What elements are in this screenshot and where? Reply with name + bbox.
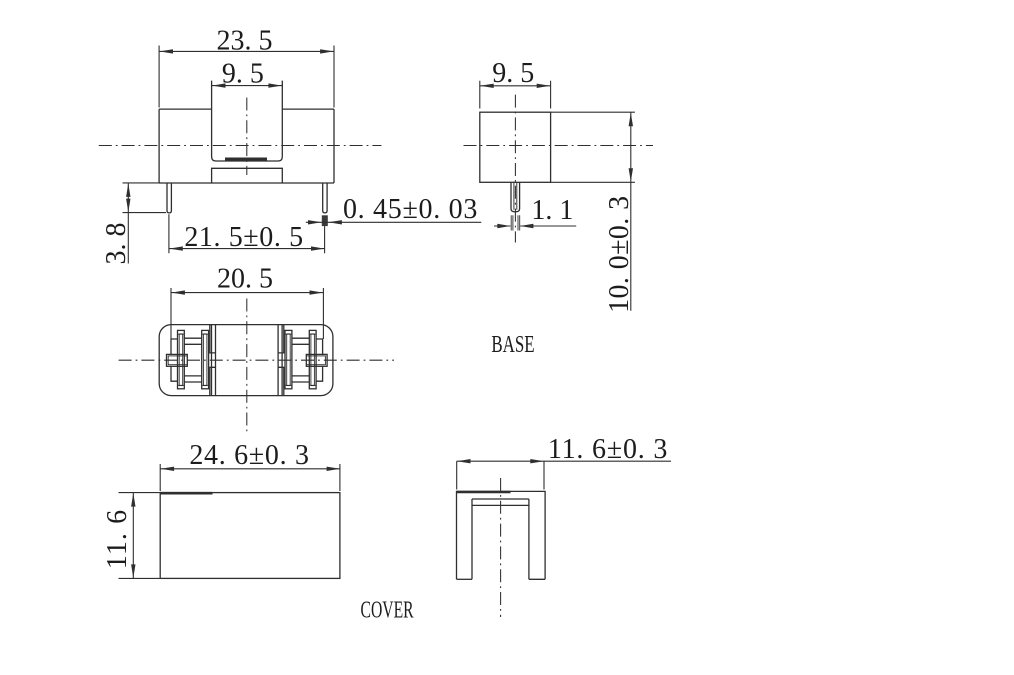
base side: pin outer profile [511,182,520,212]
left clip: finger bar A inner [179,334,183,386]
dimension 10.0±0.3: dimension line [630,112,632,311]
base front: body outline [159,109,334,183]
centerline horizontal (base top view) [119,359,394,361]
dimension 3.8: up arrow [126,183,130,197]
base top: left fuse-clip assembly [167,325,216,396]
dimension 24.6±0.3: extension lines [160,464,340,491]
dimension 0.45±0.03: leader line [306,221,482,223]
left clip: terminal tab outer [167,354,188,366]
svg-text:9. 5: 9. 5 [222,58,264,89]
dimension 0.45±0.03: left arrow [308,220,322,224]
svg-text:BASE: BASE [491,330,534,358]
svg-text:11. 6±0. 3: 11. 6±0. 3 [548,434,668,465]
svg-text:9. 5: 9. 5 [492,58,534,89]
dimension 9.5 (front): dimension line [212,85,283,87]
left clip: lower spring band [184,376,201,382]
dimension 11.6: dimension line [132,493,134,579]
cover side: channel outer profile [457,491,546,579]
cover side: inner top shelf double line [472,499,529,505]
dimension 21.5±0.5: dimension line [169,248,325,250]
base side: pin edge extension lines below tip [511,215,520,230]
dimension 1.1: left arrow [497,224,511,228]
dimension 21.5±0.5: right arrow [311,246,325,250]
dimension 10.0±0.3: up arrow [629,113,633,127]
svg-text:0. 45±0. 03: 0. 45±0. 03 [343,194,478,225]
base front: left pin [167,183,171,213]
left clip: finger bar A outer [178,330,185,388]
centerline vertical (base front view) [246,98,248,176]
dimension 1.1: left leader line [494,225,510,227]
dimension 24.6±0.3: right arrow [327,467,341,471]
svg-text:11. 6: 11. 6 [102,509,133,569]
left clip: upper spring band [184,338,201,344]
dimension 9.5 (side): extension lines [480,81,551,109]
dimension 11.6: up arrow [131,493,135,507]
dimension 1.1: right leader line [520,225,576,227]
right clip: upper spring band [292,338,309,344]
base front: fuse well U-channel walls [212,81,283,161]
cover side: left leg bottom edge [457,578,473,580]
dimension 24.6±0.3: left arrow [161,467,175,471]
dimension 24.6±0.3: dimension line [160,468,340,470]
base front: fuse surface bold line [225,158,267,161]
left clip: finger bar cap lines [178,334,209,385]
right clip: finger bar cap lines [285,334,316,385]
right clip: finger bar A inner [311,334,315,386]
dimension 3.8: extension lines [123,183,167,213]
base top: right fuse-clip assembly (mirror) [278,325,327,396]
svg-text:23. 5: 23. 5 [217,25,273,56]
left clip: lower step outline [171,366,178,381]
right clip: lower spring band [292,376,309,382]
dimension 9.5 (side): dimension line [480,85,551,87]
svg-text:10. 0±0. 3: 10. 0±0. 3 [604,196,635,313]
cover side: inner left wall [471,499,473,579]
dimension 20.5: dimension line [171,292,323,294]
dimension 23.5: dimension line [159,50,334,52]
dimension 1.1: right arrow [520,224,534,228]
dimension 3.8: dimension line [127,183,129,264]
right clip: channel wall double line [278,325,282,396]
base front: right pin measured-section hatch [322,215,328,226]
dimension 23.5: right arrow [320,49,334,53]
right clip: wall notch lower [278,367,284,395]
dimension 23.5: left arrow [160,49,174,53]
dimension 20.5: left arrow [171,290,185,294]
base side: body rectangle [480,112,551,182]
base side: top edge extension to 10.0 dimension [551,111,635,113]
svg-text:COVER: COVER [361,597,414,623]
dimension 9.5 (front): left arrow [212,83,226,87]
dimension 0.45±0.03: right arrow [328,220,342,224]
cover side: inner right wall [528,499,530,579]
dimension 21.5±0.5: left arrow [169,246,183,250]
right clip: finger bar B outer [285,330,292,388]
dimension 9.5 (side): right arrow [537,84,551,88]
centerline vertical (base side view) [514,95,516,243]
right clip: finger bar B inner [287,334,291,386]
centerline vertical (cover side view) [500,478,502,617]
svg-text:24. 6±0. 3: 24. 6±0. 3 [189,440,309,471]
dimension 3.8: down arrow [126,199,130,213]
centerline horizontal (base front view) [99,145,382,147]
left clip: upper step outline [171,339,178,354]
dimension 11.6±0.3: right arrow [530,459,544,463]
svg-text:1. 1: 1. 1 [531,195,573,226]
left clip: wall notch lower [210,367,216,395]
right clip: terminal tab inner [306,356,325,365]
dimension 11.6±0.3: leader/dimension line [457,460,671,462]
left clip: wall notch upper [210,325,216,353]
dimension 11.6: extension lines [119,493,160,579]
dimension 11.6: down arrow [131,564,135,578]
right clip: finger bar A outer [309,330,316,388]
svg-text:20. 5: 20. 5 [217,264,273,295]
cover side: right leg bottom edge [529,578,545,580]
right clip: terminal tab outer [306,354,327,366]
left clip: finger bar B inner [203,334,207,386]
base side: pin inner lines [514,182,517,210]
dimension 11.6±0.3: extension lines [457,461,544,489]
centerline vertical (base top view) [246,299,248,435]
cover front: bold top edge segment [160,492,212,495]
dimension 9.5 (side): left arrow [480,84,494,88]
cover front: body rectangle [160,493,340,579]
right clip: upper step outline [316,339,323,354]
left clip: finger bar B outer [202,330,209,388]
dimension 20.5: extension lines [171,288,323,339]
right clip: wall notch upper [278,325,284,353]
cover side: bold top edge segment [457,491,511,493]
base front: clip base block [212,168,283,183]
dimension 20.5: right arrow [310,290,324,294]
left clip: channel wall double line [212,325,216,396]
right clip: lower step outline [316,366,323,381]
svg-text:3. 8: 3. 8 [101,223,132,265]
dimension 11.6±0.3: left arrow [457,459,471,463]
dimension 9.5 (front): right arrow [268,83,282,87]
dimension 21.5±0.5: extension lines [169,214,325,253]
svg-text:21. 5±0. 5: 21. 5±0. 5 [184,222,303,253]
left clip: terminal tab inner [168,356,187,365]
centerline horizontal (base side view) [464,145,654,147]
base front: right pin [323,183,327,213]
dimension 10.0±0.3: down arrow [629,168,633,182]
dimension 23.5: extension lines [159,46,334,108]
base top: rounded-rectangle body outline [159,325,333,396]
base side: bottom edge extension to 10.0 dimension [551,181,635,183]
